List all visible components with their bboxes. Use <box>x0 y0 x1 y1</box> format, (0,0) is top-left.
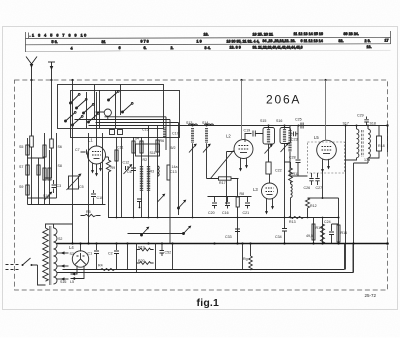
node <box>192 125 194 127</box>
svg-text:R4: R4 <box>98 264 103 268</box>
svg-text:11 12 13 14 15 16: 11 12 13 14 15 16 <box>294 32 323 36</box>
node <box>139 207 141 209</box>
svg-text:R9: R9 <box>111 166 116 170</box>
B+ heavy bus <box>57 243 388 245</box>
svg-text:S8: S8 <box>58 164 62 168</box>
svg-text:S5: S5 <box>19 145 23 149</box>
svg-text:R8: R8 <box>240 192 245 196</box>
svg-text:34 ,23 ,29,16,22. 28.: 34 ,23 ,29,16,22. 28. <box>263 39 296 43</box>
resistor S11 <box>26 185 29 195</box>
wire x49 <box>49 150 51 205</box>
wire <box>206 143 208 178</box>
coil S12 below bus <box>191 128 194 143</box>
wire <box>192 143 194 217</box>
resistor on x116 <box>115 150 118 161</box>
wire x148 <box>148 126 150 218</box>
oscillator coil can S16 <box>280 128 291 144</box>
svg-text:206A: 206A <box>266 93 301 107</box>
switch tiny contact boxes <box>110 130 115 135</box>
resistor R11 zigzag <box>284 162 292 183</box>
svg-text:S11: S11 <box>150 151 156 155</box>
svg-text:R19: R19 <box>138 246 145 250</box>
capacitor C26 <box>309 173 313 185</box>
svg-text:32.: 32. <box>339 39 344 43</box>
resistor on antenna 2 lead <box>50 139 54 148</box>
capacitor C16 <box>225 197 230 209</box>
resistor R9 zigzag <box>106 157 111 218</box>
svg-text:25-72: 25-72 <box>365 293 377 298</box>
transformer S2 secondary <box>54 228 58 284</box>
capacitor C34 <box>282 229 287 244</box>
switch arm e <box>72 116 84 127</box>
wound coil dense band 2 <box>147 166 150 191</box>
resistor R13 zigzag <box>289 217 304 219</box>
svg-text:6 11 12 13 14: 6 11 12 13 14 <box>301 39 323 43</box>
wire <box>290 126 308 177</box>
wire <box>284 126 286 229</box>
chassis dashed border <box>15 80 388 290</box>
svg-text:S7: S7 <box>19 165 23 169</box>
resistor R16 <box>337 225 340 242</box>
switch arm a <box>70 94 81 105</box>
svg-text:C24: C24 <box>324 220 331 224</box>
wire <box>268 126 270 151</box>
switch box frame 2 <box>71 91 180 138</box>
wire <box>81 215 101 217</box>
wire x322 column <box>322 218 324 244</box>
capacitor C14 <box>131 168 136 171</box>
svg-text:C12: C12 <box>123 161 130 165</box>
IF transformer S18 <box>368 129 370 158</box>
tube L3 <box>262 174 278 199</box>
trimmer C6 <box>124 164 133 174</box>
wire x353 column <box>353 163 355 273</box>
node <box>322 197 324 199</box>
svg-text:R5: R5 <box>86 210 91 214</box>
trimmer arrow left <box>45 192 53 200</box>
resistor R12 zigzag <box>306 198 310 218</box>
wire y204 long <box>28 204 106 206</box>
node <box>284 125 286 127</box>
node <box>298 125 300 127</box>
capacitor C28 <box>296 160 301 176</box>
mains input wires <box>6 264 21 266</box>
resistor S9 <box>26 165 29 175</box>
svg-text:C26: C26 <box>304 186 311 190</box>
wire C30 <box>368 126 379 159</box>
trimmer arrow S12 <box>189 144 197 153</box>
svg-text:S15: S15 <box>260 119 266 123</box>
svg-text:C28: C28 <box>289 156 296 160</box>
tube L2 <box>234 80 253 159</box>
resistor R14 <box>312 224 315 240</box>
switch arm g <box>108 91 120 102</box>
resistor R6 <box>156 140 159 152</box>
svg-text:C3: C3 <box>57 184 62 188</box>
wire x242 <box>242 244 244 270</box>
svg-text:C20: C20 <box>208 211 215 215</box>
svg-text:S16: S16 <box>276 119 282 123</box>
svg-text:S6: S6 <box>58 145 62 149</box>
resistor <box>140 141 143 153</box>
wire <box>31 147 33 205</box>
svg-text:C34: C34 <box>275 235 282 239</box>
antenna 1 <box>26 57 37 81</box>
wire right edge solid <box>387 126 389 153</box>
svg-text:S16: S16 <box>60 280 66 284</box>
wire nested line 2 <box>96 123 179 216</box>
capacitor C25 on bus <box>301 123 303 129</box>
coil S16 <box>283 129 286 143</box>
wire x38 <box>38 158 40 205</box>
wire antenna2 column <box>51 80 53 139</box>
wire L2 grid side <box>227 152 235 205</box>
svg-text:C52: C52 <box>165 251 172 255</box>
svg-text:C1: C1 <box>88 252 93 256</box>
trimmer arrow S15 <box>265 144 273 153</box>
coil S5 on antenna lead <box>30 136 34 147</box>
capacitor C13 <box>167 165 170 180</box>
wire x127 <box>127 244 129 270</box>
svg-text:6: 6 <box>119 46 121 50</box>
schematic drawing group <box>6 31 391 309</box>
tube L1 <box>88 92 106 164</box>
wire IF bottom left <box>346 158 357 160</box>
switch box frame 1 <box>58 85 164 129</box>
svg-text:R17: R17 <box>219 181 226 185</box>
tube L5 <box>317 80 337 160</box>
capacitor C23 <box>291 132 299 137</box>
svg-text:Rg: Rg <box>243 257 248 261</box>
trimmer arrow mid cluster <box>158 194 166 202</box>
node <box>338 217 340 219</box>
wire <box>308 197 323 199</box>
wire R8 <box>237 179 239 244</box>
trimmer arrow S14b <box>203 144 211 153</box>
dial lamp <box>104 109 111 116</box>
capacitor C18 <box>266 162 271 174</box>
svg-text:1 9: 1 9 <box>197 39 202 43</box>
svg-text:R3: R3 <box>150 170 155 174</box>
resistor S6 <box>43 145 46 157</box>
transformer tap 3 <box>57 278 69 280</box>
capacitor C21 <box>245 197 250 209</box>
resistor S7 <box>26 145 29 155</box>
capacitor C52 <box>160 244 165 257</box>
resistor R17 <box>207 177 239 180</box>
svg-text:S10: S10 <box>43 194 49 198</box>
svg-text:17: 17 <box>385 39 389 43</box>
wire x297 column <box>297 126 299 160</box>
wire x116 <box>116 137 118 218</box>
svg-text:L2: L2 <box>226 134 231 139</box>
svg-text:17a: 17a <box>364 158 370 162</box>
capacitor C30 <box>377 136 382 151</box>
node <box>206 125 208 127</box>
capacitor C33 <box>235 229 240 232</box>
svg-text:13. 8 9: 13. 8 9 <box>230 46 241 50</box>
svg-text:C27: C27 <box>316 186 323 190</box>
wire x157 <box>157 126 159 218</box>
resistor R20 zigzag <box>137 262 154 265</box>
ruler numbers row 2 <box>52 39 389 44</box>
switch arm h <box>122 103 134 114</box>
svg-text:19 25. 20 21: 19 25. 20 21 <box>253 32 274 36</box>
transformer core <box>49 226 51 285</box>
tube L2 leads <box>241 158 247 171</box>
wire x102 column <box>102 133 104 205</box>
svg-text:.1 3 4 5 6 7 8 9 10: .1 3 4 5 6 7 8 9 10 <box>30 33 88 37</box>
svg-text:C11: C11 <box>117 146 123 150</box>
wire L5 cathode down <box>322 171 324 198</box>
svg-text:R20: R20 <box>138 259 145 263</box>
capacitor C10 <box>91 190 96 205</box>
node <box>345 125 347 127</box>
wire left column x27 <box>27 138 29 205</box>
svg-text:R14: R14 <box>316 226 323 230</box>
switch arm upper <box>178 200 187 209</box>
resistor R15 zigzag <box>321 224 325 244</box>
svg-text:C5: C5 <box>79 185 84 189</box>
wire <box>354 158 369 163</box>
svg-text:6.: 6. <box>144 46 147 50</box>
node antenna1 junction on border <box>30 79 32 81</box>
node top junction x325 <box>324 79 326 81</box>
svg-text:33. 21,22,32,40,41,42,43,44,45: 33. 21,22,32,40,41,42,43,44,45,6 <box>253 46 303 50</box>
svg-text:L5: L5 <box>314 135 319 140</box>
variable capacitor C5 <box>67 174 82 191</box>
screen dashed box <box>308 142 345 173</box>
coil below R11 <box>291 184 293 198</box>
wound coil dense band <box>140 166 143 191</box>
svg-text:C16: C16 <box>222 211 229 215</box>
capacitor C3 <box>52 180 57 193</box>
node bus right end <box>386 124 388 126</box>
coil left of L5 <box>288 130 291 152</box>
svg-text:L5: L5 <box>70 280 74 284</box>
node top junction x72 <box>71 79 73 81</box>
svg-text:89 23 24.: 89 23 24. <box>344 32 359 36</box>
switch arm f <box>88 113 100 124</box>
svg-text:31: 31 <box>102 40 106 44</box>
capacitor C29 <box>364 117 369 126</box>
svg-text:C10: C10 <box>97 196 104 200</box>
wire cross links <box>28 158 57 198</box>
wire lamp feed <box>96 112 108 120</box>
resistor <box>37 165 40 175</box>
capacitor C27 <box>315 173 319 185</box>
wire x141 <box>141 137 143 218</box>
svg-text:fig.1: fig.1 <box>197 297 220 309</box>
wire oscillator diagonal <box>211 151 234 179</box>
tube L4 rectifier <box>72 244 88 268</box>
wire grid caps feed <box>208 196 252 198</box>
resistor R5 zigzag <box>85 214 96 216</box>
svg-text:3 4.: 3 4. <box>205 46 211 50</box>
capacitor C20 <box>212 197 217 209</box>
node <box>268 125 270 127</box>
switch arm b <box>76 99 88 110</box>
wire x56 <box>56 133 58 198</box>
tube L1 leads <box>93 163 101 175</box>
svg-text:14a: 14a <box>172 165 178 169</box>
wire x88 column <box>88 133 90 244</box>
svg-text:9 7 8: 9 7 8 <box>141 40 149 44</box>
switch arm d <box>65 112 77 123</box>
transformer tap 1 <box>57 252 69 254</box>
component can frame <box>136 144 160 156</box>
svg-text:C33: C33 <box>225 235 232 239</box>
coil S14 on bus <box>205 124 214 125</box>
svg-text:2.: 2. <box>171 46 174 50</box>
svg-text:C23: C23 <box>291 138 298 142</box>
wire antenna1 column <box>31 80 33 136</box>
junction dots on B+ bus <box>71 242 354 244</box>
svg-text:5/2: 5/2 <box>171 146 176 150</box>
svg-text:4: 4 <box>71 46 73 50</box>
node bus end <box>386 242 389 245</box>
antenna 2 <box>48 62 55 80</box>
svg-text:C6: C6 <box>127 170 132 174</box>
wire x313 column <box>313 218 315 244</box>
wire <box>45 148 52 178</box>
resistor S13a <box>132 141 135 153</box>
node top junction x241 <box>240 79 242 81</box>
wire heater line 2 <box>57 244 354 273</box>
resistor Rg <box>249 244 253 271</box>
svg-text:S4: S4 <box>135 137 139 141</box>
coil S14b below bus <box>205 128 208 143</box>
resistor R8 <box>236 197 239 207</box>
node antenna2 junction on border <box>50 79 52 81</box>
svg-text:R11: R11 <box>293 172 299 176</box>
coil on x157 <box>158 166 160 176</box>
svg-text:S13: S13 <box>186 121 192 125</box>
wire x133 <box>133 137 135 218</box>
svg-text:2 9.: 2 9. <box>365 39 371 43</box>
svg-text:C17: C17 <box>172 132 179 136</box>
ruler numbers row 1 <box>30 32 359 37</box>
coil S13 on bus <box>189 124 198 125</box>
svg-text:C2: C2 <box>108 252 113 256</box>
svg-text:R12: R12 <box>310 204 317 208</box>
ruler scale strip <box>26 31 391 52</box>
wire <box>268 150 270 162</box>
switch arm c <box>83 104 95 115</box>
svg-text:C21: C21 <box>243 211 250 215</box>
wire mains to transformer <box>32 265 46 285</box>
svg-text:C7: C7 <box>75 148 80 152</box>
resistor R19 zigzag <box>137 248 154 251</box>
svg-text:5 6.: 5 6. <box>52 40 58 44</box>
wire x44 <box>44 133 46 205</box>
svg-text:L1: L1 <box>88 138 93 143</box>
transformer S1 primary zigzag <box>43 228 49 281</box>
svg-text:L4: L4 <box>69 245 74 250</box>
svg-text:S9: S9 <box>19 185 23 189</box>
ruler numbers row 3 <box>71 45 372 50</box>
wire <box>290 182 292 218</box>
svg-text:C13: C13 <box>170 170 177 174</box>
capacitor C2 <box>114 244 119 270</box>
resistor R4 on heater line <box>101 269 115 271</box>
svg-text:R16: R16 <box>341 231 348 235</box>
svg-text:S2: S2 <box>58 237 62 241</box>
svg-text:C22: C22 <box>275 169 282 173</box>
svg-text:18.: 18. <box>367 45 372 49</box>
svg-text:S17: S17 <box>343 122 349 126</box>
node <box>356 125 358 127</box>
capacitor C24 <box>329 224 339 244</box>
wire transformer top <box>46 224 73 228</box>
wire IF tops <box>357 126 369 130</box>
wire switch interior verticals <box>87 85 121 129</box>
capacitor C19 <box>245 131 263 143</box>
tube L5 leads <box>323 159 329 171</box>
capacitor C9b <box>137 199 142 208</box>
tube L4 leads <box>71 266 85 279</box>
svg-text:R6: R6 <box>160 139 165 143</box>
switch arm on y234 <box>183 226 192 235</box>
svg-text:C29: C29 <box>357 114 364 118</box>
wire x121 <box>121 137 123 218</box>
transformer tap 2 <box>57 265 69 267</box>
tube L3 leads <box>267 198 273 213</box>
svg-text:R18: R18 <box>378 144 385 148</box>
svg-text:L3: L3 <box>253 187 258 192</box>
wire y234 <box>128 233 184 235</box>
oscillator coil can S15 <box>263 128 275 145</box>
IF transformer S17 <box>357 129 359 158</box>
capacitor C1 <box>94 244 99 270</box>
trimmer arrow S16 <box>281 143 289 152</box>
wire x338 column <box>323 198 339 244</box>
svg-text:S18: S18 <box>370 122 376 126</box>
wire nested line 0 <box>105 117 167 150</box>
wire x72 column <box>72 80 74 244</box>
svg-text:S3: S3 <box>70 252 74 256</box>
resistor <box>48 168 51 180</box>
svg-text:C15: C15 <box>142 128 149 132</box>
svg-text:49,5: 49,5 <box>306 234 313 238</box>
wire AVC line y218 <box>109 217 339 219</box>
wire nested line 1 <box>75 120 171 244</box>
svg-text:16 30 35, 21 32. 4 4,: 16 30 35, 21 32. 4 4, <box>227 39 260 43</box>
resistor S8 <box>43 168 46 180</box>
svg-text:R13: R13 <box>289 220 296 224</box>
mains switch <box>23 258 31 265</box>
wire x345 column <box>345 126 347 270</box>
svg-text:C25: C25 <box>295 118 302 122</box>
svg-text:S14: S14 <box>202 121 208 125</box>
wire heater line 1 <box>63 244 345 270</box>
wire x155 <box>155 244 157 270</box>
node <box>367 125 369 127</box>
coil S15 <box>267 129 270 143</box>
wire x172 <box>172 244 174 270</box>
wound coil band x164 <box>163 128 166 138</box>
wire main top bus <box>89 125 388 127</box>
switch arm mid <box>141 227 150 236</box>
svg-text:18.: 18. <box>204 33 209 37</box>
svg-text:C19: C19 <box>244 129 251 133</box>
capacitor C7 <box>81 150 89 155</box>
IF transformer core <box>362 130 364 157</box>
svg-text:R2: R2 <box>143 158 148 162</box>
junction dots on AVC line <box>116 217 324 219</box>
wire x136 <box>136 244 138 273</box>
